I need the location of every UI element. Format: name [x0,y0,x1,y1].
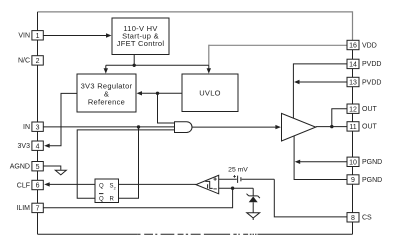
svg-text:25 mV: 25 mV [228,166,248,173]
svg-text:JFET Control: JFET Control [117,39,165,48]
svg-text:16: 16 [349,43,357,50]
svg-text:Q: Q [99,184,104,190]
svg-text:14: 14 [349,62,357,69]
svg-text:12: 12 [349,106,357,113]
svg-text:11: 11 [349,124,356,131]
svg-text:PGND: PGND [362,159,382,166]
svg-text:PVDD: PVDD [362,61,381,68]
svg-text:PVDD: PVDD [362,79,381,86]
svg-text:PGND: PGND [362,177,382,184]
svg-text:CS: CS [362,215,372,222]
svg-text:ILIM: ILIM [16,205,30,212]
svg-text:1: 1 [36,33,40,40]
svg-text:2: 2 [36,58,40,65]
svg-text:UVLO: UVLO [199,89,221,98]
svg-text:9: 9 [351,177,355,184]
svg-text:VDD: VDD [362,42,377,49]
svg-text:6: 6 [36,183,40,190]
svg-text:Q: Q [99,197,104,203]
svg-text:VIN: VIN [18,33,30,40]
svg-text:OUT: OUT [362,106,378,113]
svg-text:CLF: CLF [17,182,30,189]
svg-text:OUT: OUT [362,124,378,131]
svg-text:8: 8 [351,215,355,222]
svg-text:Reference: Reference [88,98,125,107]
svg-text:2: 2 [114,186,116,190]
svg-text:4: 4 [36,143,40,150]
svg-text:3V3: 3V3 [18,143,31,150]
svg-text:10: 10 [349,159,357,166]
svg-text:AGND: AGND [10,164,30,171]
svg-text:3: 3 [36,124,40,131]
svg-text:13: 13 [349,80,357,87]
svg-text:IN: IN [23,124,30,131]
svg-text:N/C: N/C [18,58,30,65]
svg-text:R: R [110,197,115,203]
svg-text:5: 5 [36,164,40,171]
svg-text:7: 7 [36,206,40,213]
